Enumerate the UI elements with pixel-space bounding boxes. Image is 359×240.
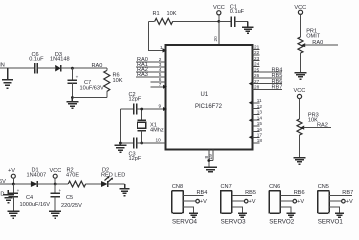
capacitor C7 — [68, 68, 104, 97]
capacitor C4 — [9, 184, 51, 211]
svg-text:RA2: RA2 — [317, 123, 328, 129]
svg-text:CN8: CN8 — [172, 184, 183, 190]
pin 24 — [253, 62, 260, 67]
svg-text:U1: U1 — [201, 92, 209, 98]
svg-text:26: 26 — [254, 73, 260, 78]
svg-text:CN6: CN6 — [269, 184, 280, 190]
potentiometer PR1 — [298, 28, 321, 72]
svg-text:RED LED: RED LED — [101, 172, 125, 178]
svg-text:9: 9 — [159, 104, 162, 109]
svg-text:10: 10 — [156, 138, 162, 143]
svg-text:+V: +V — [8, 168, 15, 174]
wire — [0, 67, 35, 69]
capacitor C5 — [50, 184, 82, 211]
ground — [7, 211, 19, 218]
svg-text:24: 24 — [254, 62, 260, 67]
svg-text:CN5: CN5 — [318, 184, 329, 190]
junction — [119, 142, 122, 145]
svg-text:470E: 470E — [66, 172, 79, 178]
svg-text:VCC: VCC — [294, 88, 306, 94]
junction — [54, 183, 57, 186]
svg-text:12pF: 12pF — [129, 97, 142, 103]
potentiometer PR3 — [297, 112, 319, 157]
connector CN6 SERVO2 — [269, 184, 304, 225]
node RA2 wire pin 4 — [136, 67, 166, 73]
svg-text:+: + — [17, 188, 20, 193]
node 6V input rail — [0, 179, 31, 185]
svg-text:16: 16 — [257, 127, 263, 132]
capacitor C6 — [29, 52, 44, 74]
svg-text:15: 15 — [257, 121, 263, 126]
svg-text:+V: +V — [249, 199, 256, 205]
pin 8 pin 19 ground — [204, 150, 217, 172]
pin 12 — [253, 104, 263, 109]
svg-text:10uF/63V: 10uF/63V — [80, 86, 105, 92]
svg-text:21: 21 — [254, 45, 260, 50]
pin 18 — [253, 138, 263, 143]
ground — [120, 184, 130, 196]
svg-text:+: + — [76, 74, 79, 79]
node RA2 wiper wire — [304, 123, 331, 129]
node VIN — [0, 63, 35, 89]
node GND terminal — [0, 190, 14, 203]
pin 16 — [253, 127, 263, 132]
wire — [119, 109, 121, 143]
ground — [294, 158, 306, 165]
capacitor C3 — [120, 138, 165, 163]
pin 22 — [253, 50, 260, 55]
svg-text:19: 19 — [208, 154, 213, 160]
power +V — [8, 168, 15, 184]
node RB5 pin 26 — [253, 73, 283, 79]
LED D2 — [101, 168, 125, 187]
node RB7 pin 28 — [253, 85, 283, 91]
svg-text:14: 14 — [257, 115, 263, 120]
junction — [71, 67, 74, 70]
ground — [295, 73, 307, 80]
wire — [72, 97, 106, 99]
pin 6 — [151, 77, 166, 82]
junction — [217, 20, 220, 23]
svg-text:28: 28 — [254, 85, 260, 90]
pin 7 — [151, 82, 168, 89]
svg-text:17: 17 — [257, 133, 263, 138]
svg-text:18: 18 — [257, 138, 263, 143]
svg-text:RA0: RA0 — [312, 40, 323, 46]
wire — [37, 67, 55, 69]
svg-text:RB7: RB7 — [272, 85, 283, 91]
svg-text:SERVO3: SERVO3 — [221, 218, 247, 225]
svg-text:12: 12 — [257, 104, 263, 109]
power VCC right mid — [294, 88, 306, 119]
svg-text:+V: +V — [297, 199, 304, 205]
svg-text:SERVO4: SERVO4 — [172, 218, 198, 225]
pin 1 arrow — [163, 48, 167, 52]
svg-text:13: 13 — [257, 110, 263, 115]
svg-text:R1: R1 — [153, 11, 160, 17]
node RA1 wire pin 3 — [136, 62, 166, 68]
junction — [140, 142, 143, 145]
capacitor C1 — [219, 4, 248, 27]
svg-text:VCC: VCC — [50, 168, 62, 174]
node RA0 wire pin 2 — [136, 57, 166, 63]
svg-text:RB6: RB6 — [294, 190, 305, 196]
svg-text:VCC: VCC — [213, 5, 225, 11]
ground — [66, 98, 78, 109]
crystal X1 — [138, 109, 164, 143]
pin 13 — [253, 110, 263, 115]
resistor R2 — [55, 168, 101, 187]
resistor R6 — [104, 68, 123, 97]
pin 23 — [253, 56, 260, 61]
svg-text:1N4148: 1N4148 — [50, 57, 70, 63]
diode D3 — [50, 52, 70, 72]
svg-text:RB4: RB4 — [197, 190, 208, 196]
resistor R1 — [148, 11, 219, 24]
svg-text:220/25V: 220/25V — [61, 203, 82, 209]
pin 15 — [253, 121, 263, 126]
svg-text:11: 11 — [257, 98, 262, 103]
svg-text:23: 23 — [254, 56, 260, 61]
svg-text:+V: +V — [200, 199, 207, 205]
svg-text:1N4007: 1N4007 — [27, 172, 47, 178]
svg-text:C5: C5 — [66, 195, 73, 201]
svg-text:PIC16F72: PIC16F72 — [195, 104, 223, 110]
svg-text:RA3: RA3 — [137, 72, 148, 78]
svg-text:0.1uF: 0.1uF — [230, 9, 245, 15]
svg-text:SERVO1: SERVO1 — [318, 218, 344, 225]
connector CN5 SERVO1 — [318, 184, 353, 225]
svg-text:+V: +V — [346, 199, 353, 205]
svg-text:1000uF/16V: 1000uF/16V — [20, 202, 51, 208]
junction — [140, 108, 143, 111]
svg-text:7: 7 — [159, 82, 162, 87]
wire node RA0 — [61, 63, 107, 69]
power VCC bottom — [50, 168, 62, 184]
node RB4 pin 25 — [253, 67, 283, 73]
svg-text:20: 20 — [213, 36, 218, 42]
svg-text:4Mhz: 4Mhz — [150, 128, 164, 134]
svg-text:OMIT: OMIT — [306, 34, 321, 40]
node RA0 wiper wire — [305, 40, 338, 46]
ground — [2, 68, 13, 88]
connector CN7 SERVO3 — [221, 184, 256, 225]
pin 21 — [253, 45, 260, 50]
svg-text:VIN: VIN — [0, 63, 5, 69]
wire — [148, 21, 165, 50]
junction — [71, 96, 74, 99]
svg-text:RB5: RB5 — [245, 190, 256, 196]
svg-text:CN7: CN7 — [221, 184, 232, 190]
power VCC right top — [294, 5, 306, 37]
op-amp U1 : IC PIC16F72 — [166, 45, 253, 150]
connector CN8 SERVO4 — [172, 184, 207, 225]
node RB6 pin 27 — [249, 79, 283, 86]
svg-text:RB7: RB7 — [342, 190, 353, 196]
pin 14 — [249, 115, 263, 122]
svg-text:C4: C4 — [26, 195, 33, 201]
capacitor C2 — [120, 92, 167, 114]
svg-text:SERVO2: SERVO2 — [269, 218, 295, 225]
svg-text:22: 22 — [254, 50, 260, 55]
pin 17 — [249, 133, 263, 140]
svg-text:1: 1 — [160, 45, 163, 50]
ground — [242, 21, 253, 33]
svg-text:25: 25 — [254, 67, 260, 72]
ground — [114, 143, 126, 152]
svg-text:0.1uF: 0.1uF — [29, 57, 44, 63]
svg-text:27: 27 — [254, 79, 260, 84]
wire pin 20 — [213, 21, 219, 45]
svg-text:12pF: 12pF — [129, 156, 142, 162]
node RA3 wire pin 5 — [136, 72, 166, 78]
svg-text:+: + — [59, 188, 62, 193]
diode D1 — [27, 168, 56, 187]
svg-text:10K: 10K — [113, 78, 123, 84]
power VCC top — [213, 5, 225, 22]
junction — [12, 183, 15, 186]
svg-text:10K: 10K — [167, 11, 177, 17]
ground — [49, 211, 61, 218]
svg-text:RA0: RA0 — [92, 63, 103, 69]
pin 11 — [249, 98, 262, 105]
